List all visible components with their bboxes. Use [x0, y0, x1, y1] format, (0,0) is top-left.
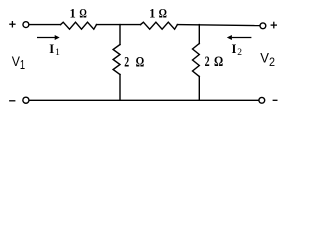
svg-text:2: 2: [269, 55, 275, 69]
svg-text:Ω: Ω: [214, 54, 223, 70]
svg-text:2: 2: [237, 48, 242, 58]
svg-text:I: I: [49, 42, 54, 56]
svg-text:Ω: Ω: [79, 7, 86, 21]
svg-text:I: I: [232, 42, 237, 56]
svg-text:1: 1: [70, 7, 76, 21]
svg-text:Ω: Ω: [136, 55, 145, 71]
svg-text:1: 1: [20, 58, 25, 72]
svg-text:2: 2: [124, 55, 129, 71]
svg-text:2: 2: [205, 54, 210, 70]
svg-text:1: 1: [55, 48, 60, 58]
svg-text:Ω: Ω: [159, 7, 167, 21]
svg-text:1: 1: [149, 7, 155, 21]
